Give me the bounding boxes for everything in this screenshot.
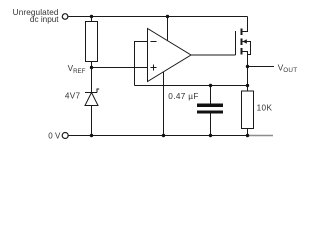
node 0V terminal circle xyxy=(62,133,68,139)
svg-text:VOUT: VOUT xyxy=(278,64,298,75)
transistor Q1 (n-channel MOSFET) gate plate xyxy=(235,31,237,55)
wire 10K bottom lead xyxy=(247,129,249,136)
wire capacitor top lead xyxy=(210,86,212,105)
wire VOUT stub xyxy=(248,66,275,68)
op-amp plus sign xyxy=(151,65,157,71)
wire inverting input feedback left leg xyxy=(135,42,149,86)
wire noninverting input from VREF node xyxy=(92,67,149,69)
resistor 10K xyxy=(242,91,254,129)
svg-text:dc input: dc input xyxy=(30,15,59,24)
wire drain drop xyxy=(243,17,248,32)
wire op-amp V+ supply tap xyxy=(167,17,169,43)
zener diode 4V7 xyxy=(85,89,99,106)
wire 0V rail gray extension xyxy=(248,135,274,137)
svg-text:0 V: 0 V xyxy=(48,131,61,140)
op-amp U1 xyxy=(148,29,192,82)
svg-text:VREF: VREF xyxy=(68,64,86,75)
resistor R1 (series pass reference feed) xyxy=(86,22,98,62)
wire top rail xyxy=(69,16,248,18)
svg-text:4V7: 4V7 xyxy=(65,91,81,100)
op-amp minus sign xyxy=(151,41,157,43)
wire op-amp V- supply to 0V rail xyxy=(163,71,165,136)
wire R1 bottom lead to VREF node down to zener xyxy=(91,62,93,93)
wire VOUT node to feedback node to 10K xyxy=(247,67,249,92)
node junction dots xyxy=(90,15,249,137)
wire source to VOUT node xyxy=(243,52,248,67)
svg-text:10K: 10K xyxy=(257,103,273,112)
node input terminal circle xyxy=(62,14,68,20)
transistor Q1 channel dashes xyxy=(241,29,243,55)
svg-text:0.47 µF: 0.47 µF xyxy=(168,92,198,101)
transistor Q1 body wire with arrow xyxy=(243,42,251,55)
wire 0V rail xyxy=(69,135,248,137)
wire op-amp output to gate xyxy=(191,54,236,56)
wire zener anode to 0V rail xyxy=(91,106,93,136)
wire R1 top lead xyxy=(91,17,93,23)
wire capacitor bottom lead xyxy=(210,113,212,136)
capacitor 0.47uF plates xyxy=(197,104,223,107)
wire feedback bottom run xyxy=(135,85,248,87)
